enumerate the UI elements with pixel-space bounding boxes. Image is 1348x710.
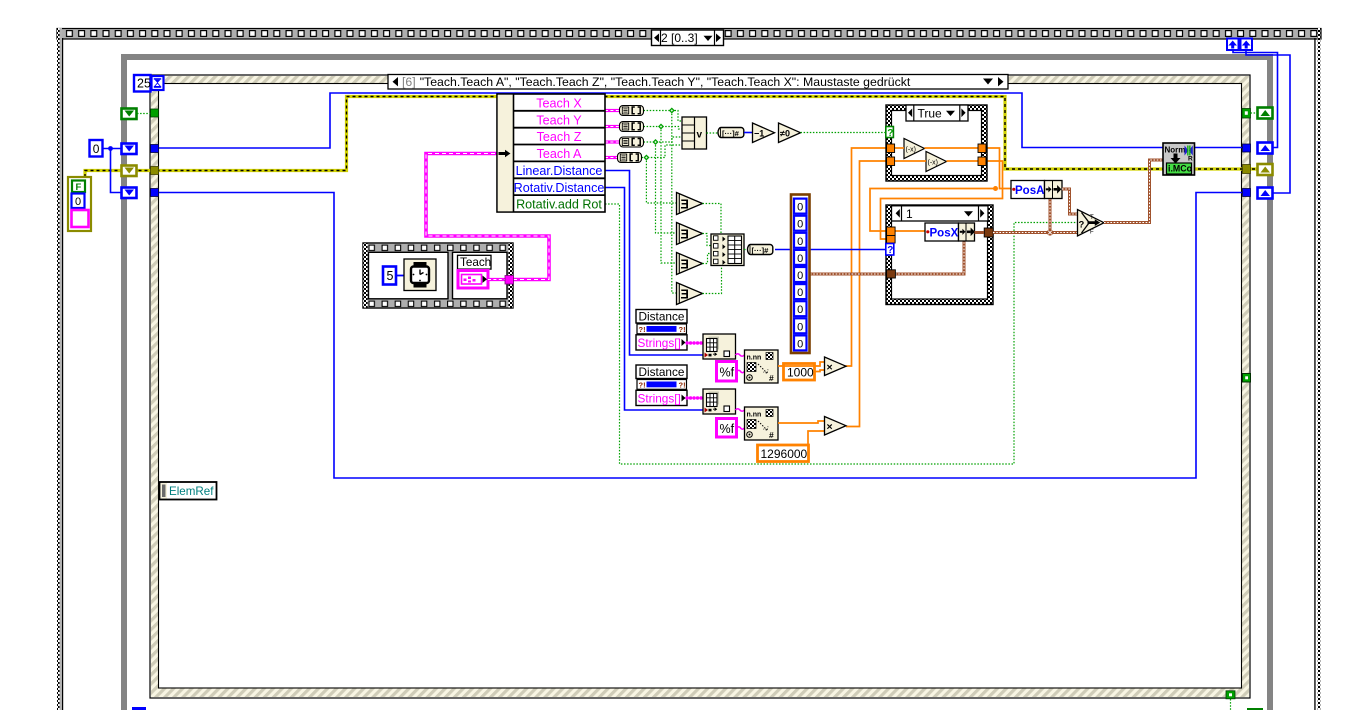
svg-text:0: 0: [797, 219, 803, 231]
wire: blue 5 to wait: [396, 275, 404, 277]
svg-text:Distance: Distance: [639, 309, 685, 323]
svg-text:1: 1: [906, 207, 913, 221]
%f constant 1: [717, 362, 737, 382]
wire: brown PosA output to Select T input: [1062, 189, 1077, 214]
Distance combo control 1: [636, 309, 687, 350]
svg-text:T: T: [1090, 215, 1094, 221]
svg-text:Linear.Distance: Linear.Distance: [516, 164, 603, 178]
left shift register (blue 2): [122, 188, 137, 199]
multiply node 2: [825, 417, 847, 436]
green terminal at bottom edge: [1247, 708, 1263, 710]
wire: blue boolean-array-to-number 2 to case selector: [775, 249, 886, 251]
constant 1000: [784, 364, 815, 381]
svg-text:Strings[]: Strings[]: [638, 391, 681, 405]
tunnels: orange on True case borders: [887, 144, 986, 166]
svg-text:Teach Y: Teach Y: [536, 113, 582, 127]
%f constant 2: [717, 419, 737, 438]
svg-text:#: #: [769, 373, 774, 383]
svg-text:[6]"Teach.Teach A", "Teach.Tea: [6]"Teach.Teach A", "Teach.Teach Z", "Te…: [402, 75, 911, 89]
hourglass icon on event structure: [152, 76, 164, 90]
svg-text:True: True: [918, 107, 943, 121]
numeric constant 5: [383, 267, 396, 285]
svg-text:?!: ?!: [639, 325, 646, 334]
wires: green dotted from list icons to OR node and empty? nodes: [642, 111, 683, 294]
svg-text:n.nn: n.nn: [747, 355, 762, 362]
case 1 selector label: [892, 206, 989, 221]
wire: blue from top tunnel 2 down to right shift register 2: [1246, 50, 1290, 193]
decrement node: [753, 123, 775, 143]
wire: pink chain Strings2 to index array 2: [687, 396, 703, 399]
svg-text:PosA: PosA: [1015, 185, 1044, 197]
wire: squiggly string wires: [736, 354, 745, 430]
True case structure: [886, 105, 987, 181]
svg-text:0: 0: [797, 253, 803, 265]
wire: orange multiply1 output up to True case: [846, 148, 887, 366]
wire: blue Rotativ.Distance to Index Array 2: [605, 188, 703, 411]
tunnels on event border (right side): [1242, 109, 1257, 197]
svg-text:≠0: ≠0: [780, 129, 790, 139]
tunnel: blue on event border (left, y193): [151, 189, 159, 197]
svg-text:Teach A: Teach A: [537, 147, 582, 161]
wire: green Rotativ.add Rot to Select node: [605, 204, 1077, 464]
boolean array to number node 1: [718, 128, 744, 138]
wire: green to True case selector: [801, 132, 887, 134]
while loop border (gray): [121, 54, 1273, 710]
wire: blue Linear.Distance to Index Array 1: [605, 171, 703, 356]
tunnel: green unwired on event right border: [1243, 374, 1251, 383]
left shift register (blue 1): [122, 144, 137, 155]
svg-text:−1: −1: [754, 128, 764, 138]
svg-text:[···]#: [···]#: [722, 129, 740, 138]
case structure 1: [886, 205, 993, 305]
outer stacked sequence: right border: [1314, 28, 1320, 710]
svg-text:0: 0: [797, 304, 803, 316]
Distance combo control 2: [636, 365, 687, 406]
bundle-by-name node PosX: [925, 223, 975, 241]
svg-text:0: 0: [797, 202, 803, 214]
event structure selector label: [388, 75, 1008, 90]
left shift register (olive, error): [122, 166, 137, 177]
index array node 1: [703, 334, 736, 359]
svg-text:?: ?: [887, 245, 893, 256]
svg-text:0: 0: [797, 270, 803, 282]
svg-text:×: ×: [827, 362, 833, 374]
wire: green build output: [744, 249, 748, 251]
outer stacked sequence: top filmstrip bar: [57, 29, 1321, 40]
list icons (x4): [618, 106, 644, 163]
svg-text:?!: ?!: [679, 380, 686, 389]
svg-text:?: ?: [1079, 220, 1085, 231]
wire: blue to decrement: [744, 132, 752, 134]
svg-text:?: ?: [887, 128, 893, 139]
svg-text:ElemRef: ElemRef: [169, 485, 214, 498]
error cluster constant (F, 0, empty string): [68, 177, 91, 231]
sequence local tunnels (top right, blue up arrows): [1227, 39, 1252, 51]
wire: pink ref to tunnel: [488, 278, 505, 281]
build array node: [711, 234, 744, 266]
svg-text:0: 0: [93, 142, 100, 156]
svg-text:Rotativ.add Rot: Rotativ.add Rot: [516, 198, 602, 212]
wait (ms) node: [404, 259, 436, 291]
wire: pink cluster wire from flat sequence to unbundle input: [426, 154, 549, 280]
svg-text:Ǝ: Ǝ: [681, 198, 689, 212]
numeric constant 0: [90, 140, 103, 157]
flat sequence (wait) structure: [363, 243, 513, 308]
svg-text:[···]#: [···]#: [752, 246, 770, 255]
wire: blue shift-register-2 long wire around bottom: [158, 193, 1243, 479]
wire: orange from True case tunnel 2 to case 1: [881, 161, 1003, 239]
svg-text:Norm: Norm: [1165, 146, 1186, 155]
not-equal-to-zero node: [779, 123, 801, 143]
svg-text:0: 0: [75, 196, 81, 208]
wire: green dotted to event tunnel: [137, 113, 151, 115]
Norm subVI icon: [1163, 143, 1195, 175]
empty-array? node 2: [677, 223, 703, 245]
bundle-by-name node PosA: [1011, 181, 1062, 199]
True case selector label: [906, 105, 968, 121]
tunnel: blue on event border (left, y148): [151, 145, 159, 153]
junction diamonds on green wires: [643, 108, 674, 161]
wire: error cluster wire (yellow/black dashed) around diagram: [85, 97, 1258, 178]
tunnel: green ? selector of True case: [886, 127, 894, 139]
svg-text:1296000: 1296000: [761, 447, 808, 461]
wire: green OR output: [707, 132, 719, 134]
timeout constant 25: [134, 75, 151, 92]
wire: blue from 0 to shift registers with junction: [103, 146, 122, 192]
ElemRef reference terminal: [160, 482, 217, 500]
wire: blue from top tunnel 1 down to right shift register 1: [1233, 50, 1278, 148]
outer stacked sequence: left border: [57, 28, 63, 710]
negate node 2: [926, 152, 947, 172]
Teach reference label: [458, 255, 492, 269]
negate node 1: [904, 139, 925, 159]
svg-text:0: 0: [797, 321, 803, 333]
svg-text:×: ×: [827, 421, 833, 433]
svg-text:1000: 1000: [787, 365, 814, 379]
svg-text:2 [0..3]: 2 [0..3]: [661, 31, 698, 45]
svg-text:5: 5: [387, 269, 394, 283]
svg-text:F: F: [1090, 230, 1094, 236]
svg-text:(-x): (-x): [928, 160, 939, 167]
scan from string node 1: [745, 350, 779, 383]
wire: orange from True case tunnel 1 to PosA and case 1: [870, 148, 1011, 231]
svg-text:R: R: [1188, 156, 1193, 163]
svg-text:%f: %f: [720, 422, 735, 436]
wire: brown cluster from array edge into case 1: [810, 273, 887, 276]
svg-text:v: v: [697, 130, 703, 141]
svg-text:F: F: [76, 182, 82, 193]
wire: brown inside case 1 from left tunnel up to PosX cells: [895, 241, 964, 274]
wires: pink string stubs from unbundle rows to list icons: [605, 111, 619, 158]
svg-text:Teach X: Teach X: [536, 97, 582, 111]
wire: brown PosA bottom to junction: [1047, 198, 1053, 236]
svg-text:?!: ?!: [679, 325, 686, 334]
compound OR node: [682, 117, 707, 149]
svg-text:i.MCo: i.MCo: [1168, 163, 1193, 173]
iteration terminal stub at bottom: [132, 707, 146, 710]
svg-text:Rotativ.Distance: Rotativ.Distance: [514, 181, 605, 195]
wire: blue shift-register-1 long wire across diagram to Norm subVI: [158, 93, 1243, 148]
wires: green from empty? nodes to build-array node: [703, 204, 722, 294]
tunnel: green on event bottom border with wire: [1226, 691, 1235, 710]
svg-text:0: 0: [797, 236, 803, 248]
empty-array? node 3: [677, 253, 703, 275]
left shift register (green, boolean): [122, 109, 137, 120]
wire: orange inside case 1 to PosX: [894, 230, 926, 232]
event structure frame: [150, 75, 1250, 698]
wire: pink chain Strings1 to index array 1: [687, 341, 703, 344]
tunnels on case 1: [886, 227, 993, 278]
svg-text:Distance: Distance: [639, 365, 685, 379]
svg-text:Teach: Teach: [460, 256, 491, 269]
wire: orange multiply2 output up to True case: [846, 161, 886, 427]
tunnel: magenta on flat sequence border: [505, 276, 514, 285]
svg-text:PosX: PosX: [930, 227, 959, 239]
svg-text:Teach Z: Teach Z: [537, 130, 582, 144]
svg-text:%f: %f: [720, 366, 735, 380]
array indicator of zeros: [791, 195, 810, 354]
boolean array to number node 2: [748, 245, 773, 255]
select node: [1078, 210, 1105, 237]
svg-text:25: 25: [137, 77, 151, 91]
svg-text:Strings[]: Strings[]: [638, 336, 681, 350]
constant 1296000: [758, 445, 809, 462]
tunnel: olive on event border (left): [151, 167, 159, 175]
svg-text:0: 0: [797, 338, 803, 350]
empty-array? node 1: [677, 193, 703, 215]
svg-text:(-x): (-x): [906, 147, 917, 154]
tunnel: green on event border (left): [151, 109, 159, 117]
outer sequence selector label "2 [0..3]": [652, 30, 724, 46]
multiply node 1: [825, 357, 847, 376]
wires: orange into multiply nodes: [778, 362, 824, 445]
index array node 2: [703, 389, 736, 414]
right shift registers (up arrows): [1258, 108, 1273, 199]
Teach control reference node: [458, 271, 488, 289]
svg-text:?!: ?!: [639, 380, 646, 389]
empty-array? node 4: [677, 283, 703, 305]
scan from string node 2: [745, 407, 779, 440]
unbundle by name node: [497, 94, 605, 212]
svg-text:0: 0: [797, 287, 803, 299]
wire: brown Select output to Norm subVI: [1104, 160, 1163, 223]
wire: brown PosX output to Select: [975, 231, 1078, 234]
wires: orange inside True case: [894, 148, 978, 161]
